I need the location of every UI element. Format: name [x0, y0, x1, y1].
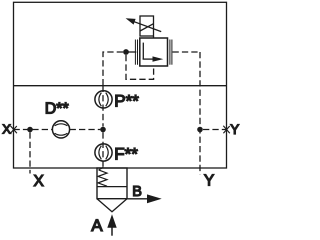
svg-text:X: X — [34, 173, 45, 190]
main relief cartridge: spring connector jog — [99, 167, 103, 170]
main relief cartridge: body mid line — [97, 186, 127, 188]
junction node dot right (Y branch) — [197, 127, 203, 133]
port A flow arrow — [107, 214, 116, 235]
junction node dot center (X line / pilot line) — [100, 127, 106, 133]
port B line — [127, 198, 149, 200]
svg-text:D**: D** — [45, 101, 69, 118]
housing section divider line — [14, 85, 227, 87]
main relief cartridge: body rectangle — [97, 168, 127, 199]
pilot relief valve DB: internal flow path arrow — [143, 43, 164, 62]
pilot relief valve DB: spring diagonal — [140, 24, 154, 31]
port B flow arrow — [147, 194, 162, 203]
pilot relief valve DB: spring box — [140, 16, 154, 36]
manifold housing outline — [14, 2, 227, 168]
svg-text:B: B — [132, 184, 142, 200]
pilot relief valve DB: spring box to valve connector — [153, 36, 155, 38]
wire: Y pilot line vertical dashed — [199, 52, 201, 175]
junction node dot left (X branch) — [27, 127, 33, 133]
wire: X-Y dashed pilot line across housing — [14, 129, 227, 131]
wire: dot to valve left port (solid) — [126, 51, 136, 53]
port X plug cross at left housing edge — [10, 126, 17, 134]
wire: X branch dashed down to bottom port — [29, 132, 31, 173]
svg-text:Y: Y — [204, 172, 214, 189]
wire: valve right port dashed to Y line corner — [173, 51, 201, 53]
pilot relief valve DB: adjustment arrow — [126, 18, 162, 31]
svg-text:F**: F** — [114, 145, 138, 164]
orifice F** : pilot line restrictor — [95, 144, 112, 161]
wire: dashed vertical dot to F orifice and to bottom edge — [102, 132, 104, 167]
pilot relief valve DB: valve square — [140, 38, 168, 66]
svg-text:X: X — [2, 122, 11, 137]
pilot relief valve DB: right side double bars — [170, 40, 172, 65]
orifice P** : pilot line restrictor — [95, 91, 112, 108]
main relief cartridge: poppet seat V — [97, 199, 127, 212]
port Y plug cross at right housing edge — [223, 126, 230, 134]
svg-text:A: A — [91, 216, 103, 235]
pilot relief valve DB: left side double bars — [135, 40, 137, 65]
wire: pilot supply dashed from dot left then down to divider — [103, 52, 123, 86]
svg-text:P**: P** — [114, 91, 139, 110]
svg-text:Y: Y — [230, 122, 239, 137]
orifice D** : X line restrictor — [52, 121, 69, 138]
junction node dot at pilot valve inlet — [123, 49, 129, 55]
wire: valve drain loop dashed (dot down, right, up to valve bottom) — [126, 55, 154, 79]
wire: dashed vertical through P orifice — [102, 86, 104, 127]
main relief cartridge: spring zigzag — [98, 170, 107, 186]
